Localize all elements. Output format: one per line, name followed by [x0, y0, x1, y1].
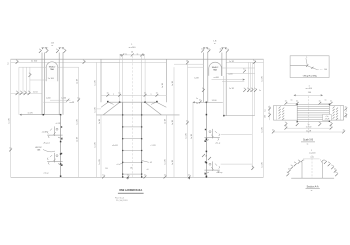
- dim tick with label: [24, 91, 27, 95]
- section 5-B centerline dashed: [308, 96, 310, 133]
- dim tick with label: [296, 122, 299, 126]
- line segment: [101, 102, 108, 107]
- dim drop left: [119, 55, 121, 59]
- line segment: [165, 115, 167, 177]
- line segment: [248, 62, 250, 92]
- svg-text:1x 1R: 1x 1R: [191, 133, 193, 139]
- line segment: [297, 110, 329, 112]
- dim drop right: [143, 55, 145, 59]
- node dot: [122, 174, 123, 175]
- rung 5: [123, 173, 142, 175]
- dim arrow: [42, 47, 43, 49]
- node dot: [60, 175, 62, 177]
- svg-text:1x 100: 1x 100: [48, 78, 55, 80]
- svg-text:1x 1R: 1x 1R: [99, 118, 101, 124]
- svg-text:sc=100: sc=100: [309, 152, 316, 154]
- svg-text:1x: 1x: [330, 101, 332, 103]
- line segment: [100, 115, 102, 177]
- svg-text:1x: 1x: [247, 88, 249, 90]
- dim tick with label: [77, 97, 80, 101]
- line segment: [301, 162, 303, 178]
- svg-text:1x 100: 1x 100: [31, 61, 38, 63]
- dim tick: [336, 108, 338, 110]
- line segment: [41, 53, 43, 115]
- line segment: [122, 102, 124, 177]
- dim tick with label: [342, 129, 345, 133]
- svg-text:1x: 1x: [83, 60, 85, 62]
- svg-text:1x: 1x: [202, 88, 204, 90]
- svg-text:x1: x1: [117, 164, 119, 166]
- line segment: [141, 55, 143, 102]
- dim arrow: [294, 95, 296, 96]
- dim line y67 right view: [188, 66, 204, 68]
- dim tick with label: [254, 88, 257, 92]
- section 5-B: boxed label: [323, 114, 332, 120]
- line segment: [272, 106, 274, 121]
- svg-text:1x: 1x: [156, 93, 158, 95]
- seal tab bubble: [209, 62, 222, 76]
- dim tick: [333, 112, 335, 114]
- dim tick with label: [294, 162, 297, 166]
- svg-text:1x: 1x: [144, 93, 146, 95]
- svg-text:1x: 1x: [296, 101, 298, 103]
- svg-text:1x 1R: 1x 1R: [95, 107, 97, 113]
- svg-text:1x=1R: 1x=1R: [306, 130, 312, 132]
- dim tick with label: [318, 101, 321, 105]
- svg-text:a=4R: a=4R: [69, 102, 74, 104]
- svg-text:SEAL2: SEAL2: [49, 65, 56, 68]
- dim tick with label: [208, 48, 211, 52]
- svg-text:1x: 1x: [24, 91, 26, 93]
- svg-text:x: x: [320, 159, 321, 161]
- svg-text:1x: 1x: [291, 100, 293, 102]
- dim tick: [279, 114, 281, 116]
- line segment: [286, 102, 297, 104]
- node dot: [206, 114, 208, 116]
- line segment: [60, 115, 62, 177]
- dim tick with label: [328, 162, 331, 166]
- dim arrow: [207, 47, 208, 49]
- svg-text:a=100: a=100: [214, 77, 219, 79]
- line segment: [165, 59, 167, 102]
- dim tick: [336, 110, 338, 112]
- rung 2: [123, 138, 142, 140]
- svg-text:(-1): (-1): [311, 157, 314, 159]
- dim tick with label: [16, 91, 19, 95]
- node dot: [141, 138, 142, 139]
- detail box: rail line: [290, 65, 307, 67]
- dim tick with label: [28, 91, 31, 95]
- line segment: [286, 127, 331, 129]
- dim tick: [279, 109, 281, 111]
- dim vertical x193: [192, 102, 194, 177]
- svg-text:1x 1R: 1x 1R: [77, 119, 79, 125]
- svg-text:1x: 1x: [291, 165, 293, 167]
- line segment: [207, 53, 209, 103]
- node dot: [122, 150, 123, 151]
- line segment: [252, 62, 254, 169]
- dim tick: [282, 110, 284, 112]
- node dot: [141, 176, 142, 177]
- svg-text:1x: 1x: [243, 88, 245, 90]
- svg-text:x: x: [303, 159, 304, 161]
- middle view: leader from corner dots: [109, 102, 114, 104]
- svg-text:1x: 1x: [77, 97, 79, 99]
- dim tick with label: [251, 88, 254, 92]
- node dot: [122, 126, 123, 127]
- dim tick with label: [243, 69, 246, 73]
- line segment: [29, 67, 31, 93]
- dim tick with label: [272, 129, 275, 133]
- baseline y177: [11, 176, 264, 178]
- dim tick with label: [144, 174, 147, 178]
- small ledge line left: [96, 108, 101, 110]
- svg-text:1x: 1x: [186, 120, 188, 122]
- seal tab bubble: [46, 62, 58, 81]
- node left post base: [43, 114, 45, 116]
- line segment: [343, 106, 345, 121]
- svg-text:1x: 1x: [243, 69, 245, 71]
- line segment: [320, 102, 331, 104]
- dim line y80: [30, 79, 46, 81]
- svg-text:1x: 1x: [298, 160, 300, 162]
- svg-text:1x 1R: 1x 1R: [172, 159, 174, 165]
- dim tick with label: [285, 101, 288, 105]
- tick on y62 right: [253, 60, 256, 64]
- dim tick with label: [344, 106, 347, 110]
- dim tick with label: [330, 126, 333, 130]
- dim tick: [140, 53, 143, 56]
- dim tick with label: [106, 93, 109, 97]
- line segment: [100, 59, 102, 102]
- dim tick with label: [20, 91, 23, 95]
- dim arrow: [120, 54, 122, 55]
- svg-text:ONE LADDER RAIL1: ONE LADDER RAIL1: [119, 188, 143, 192]
- node dot: [156, 101, 158, 103]
- svg-text:1x: 1x: [39, 49, 41, 51]
- dim line y102: [43, 101, 66, 103]
- dim tick with label: [331, 165, 334, 169]
- line segment: [11, 93, 42, 95]
- node dot: [60, 153, 62, 155]
- dim tick with label: [243, 88, 246, 92]
- dim vertical x174 between views: [173, 67, 175, 177]
- datum line top y59: [11, 58, 264, 60]
- node dot: [206, 102, 208, 104]
- line segment: [221, 53, 223, 77]
- node dot: [329, 104, 330, 105]
- line segment: [122, 55, 124, 102]
- svg-text:1x 1R: 1x 1R: [8, 118, 10, 124]
- svg-text:1x: 1x: [342, 129, 344, 131]
- svg-text:1x: 1x: [287, 172, 289, 174]
- svg-text:1x: 1x: [188, 174, 190, 176]
- dim tick: [279, 117, 281, 119]
- node dot: [206, 176, 208, 178]
- line segment: [108, 101, 157, 103]
- svg-text:1x: 1x: [319, 122, 321, 124]
- node dot: [206, 151, 208, 153]
- svg-text:1x 1R: 1x 1R: [77, 136, 79, 142]
- svg-text:1x: 1x: [324, 160, 326, 162]
- line segment: [321, 162, 323, 178]
- dim arrow: [193, 102, 195, 103]
- svg-text:a: a: [113, 94, 114, 96]
- dim tick: [279, 106, 281, 108]
- svg-text:1x: 1x: [294, 162, 296, 164]
- left view: bolt cluster upper: [47, 126, 62, 139]
- line segment: [42, 47, 49, 49]
- line segment: [222, 81, 244, 83]
- svg-text:sc: sc: [125, 53, 127, 55]
- dim arrow: [203, 47, 204, 49]
- svg-text:+1 1R: +1 1R: [150, 145, 156, 147]
- dim tick: [202, 154, 205, 157]
- svg-text:1x 1R: 1x 1R: [172, 80, 174, 86]
- line segment: [222, 67, 255, 69]
- line segment: [203, 47, 207, 49]
- node dot: [297, 104, 298, 105]
- svg-text:21 (Jul) 2019: 21 (Jul) 2019: [116, 200, 129, 202]
- dim tick with label: [296, 101, 299, 105]
- svg-text:1x: 1x: [335, 172, 337, 174]
- dim tick with label: [286, 172, 289, 176]
- line segment: [96, 62, 98, 177]
- svg-text:Section A-A: Section A-A: [307, 185, 319, 188]
- svg-text:+5x1=p: +5x1=p: [216, 172, 222, 174]
- svg-text:1x: 1x: [226, 48, 228, 50]
- line segment: [263, 59, 265, 177]
- small down arrows under baseline: [127, 177, 129, 179]
- svg-text:1x: 1x: [328, 162, 330, 164]
- node dot: [122, 162, 123, 163]
- svg-text:Offüg Rail Mfg: Offüg Rail Mfg: [303, 75, 318, 77]
- svg-text:1x: 1x: [199, 99, 201, 101]
- line segment: [78, 67, 80, 177]
- dim tick with label: [335, 172, 338, 176]
- dim tick: [121, 53, 124, 56]
- svg-text:1x: 1x: [16, 60, 18, 62]
- dim tick with label: [144, 93, 147, 97]
- left view: bolt cluster lower: [47, 153, 62, 166]
- svg-text:1x: 1x: [330, 126, 332, 128]
- node dot: [122, 138, 123, 139]
- svg-text:sc: sc: [137, 53, 139, 55]
- dim tick: [282, 108, 284, 110]
- svg-text:1x: 1x: [46, 49, 48, 51]
- dim tick with label: [247, 88, 250, 92]
- dim tick: [336, 113, 338, 115]
- node dot: [119, 101, 121, 103]
- dim line y100: [50, 99, 70, 101]
- tick on x29.9: [29, 73, 32, 77]
- dim tick with label: [226, 48, 229, 52]
- dim tick with label: [285, 126, 288, 130]
- dim tick with label: [127, 174, 130, 178]
- line segment: [59, 47, 63, 49]
- dim arrow: [59, 47, 60, 49]
- svg-text:1x 1R: 1x 1R: [172, 119, 174, 125]
- svg-text:1x 100: 1x 100: [306, 127, 311, 129]
- line segment: [301, 141, 315, 143]
- node dot: [329, 121, 330, 122]
- svg-text:1x: 1x: [29, 73, 31, 75]
- line segment: [297, 112, 329, 114]
- svg-text:TAB: TAB: [213, 69, 218, 72]
- line segment: [225, 53, 227, 116]
- svg-text:1x: 1x: [102, 174, 104, 176]
- line segment: [25, 67, 27, 93]
- svg-text:1x 1R: 1x 1R: [262, 76, 264, 82]
- dim tick: [333, 114, 335, 116]
- dim tick with label: [186, 120, 189, 124]
- line segment: [193, 101, 223, 103]
- line segment: [339, 106, 341, 121]
- node dot: [107, 101, 109, 103]
- line segment: [10, 59, 12, 177]
- dim tick: [301, 160, 303, 162]
- dim tick with label: [199, 99, 202, 103]
- node dot: [206, 176, 207, 177]
- detail box: frame: [290, 56, 329, 78]
- node dot: [141, 162, 142, 163]
- dim line y62 right span: [226, 61, 264, 63]
- svg-text:1x: 1x: [16, 91, 18, 93]
- svg-text:1x: 1x: [268, 113, 270, 115]
- svg-text:1x: 1x: [265, 109, 267, 111]
- svg-text:100: 100: [324, 69, 327, 71]
- line segment: [273, 119, 297, 121]
- line segment: [145, 102, 161, 115]
- dim tick with label: [268, 106, 271, 110]
- line segment: [103, 102, 119, 115]
- svg-text:1x 1R: 1x 1R: [162, 82, 164, 88]
- section 5-B top dim: [294, 94, 322, 96]
- ladder centerline dashed: [131, 56, 133, 177]
- line segment: [276, 106, 278, 121]
- svg-text:a: a: [151, 94, 152, 96]
- svg-text:1x: 1x: [196, 98, 198, 100]
- svg-text:1x: 1x: [319, 101, 321, 103]
- svg-text:1x: 1x: [208, 48, 210, 50]
- middle box flange line y62: [101, 61, 166, 63]
- svg-text:1x: 1x: [259, 90, 261, 92]
- line segment: [329, 105, 343, 107]
- line segment: [58, 53, 60, 115]
- line segment: [254, 62, 256, 115]
- line segment: [297, 103, 329, 105]
- node dot: [223, 115, 225, 117]
- tick on x10.6 low: [9, 147, 12, 151]
- node dot: [141, 114, 142, 115]
- line segment: [297, 114, 329, 116]
- tick x17 on y62: [16, 60, 19, 64]
- line segment: [223, 76, 225, 116]
- dim tick with label: [344, 113, 347, 117]
- svg-text:1x: 1x: [285, 126, 287, 128]
- svg-text:1x: 1x: [345, 106, 347, 108]
- dim tick with label: [290, 165, 293, 169]
- svg-text:1x: 1x: [118, 93, 120, 95]
- line segment: [250, 62, 252, 92]
- dim tick: [321, 160, 323, 162]
- dim tick with label: [330, 101, 333, 105]
- dim line y62 left span: [11, 61, 120, 63]
- svg-text:1x: 1x: [201, 48, 203, 50]
- dim tick: [282, 113, 284, 115]
- svg-text:1x: 1x: [127, 174, 129, 176]
- line segment: [20, 114, 61, 116]
- dim tick: [282, 118, 284, 120]
- line segment: [273, 131, 343, 133]
- svg-text:1x: 1x: [251, 88, 253, 90]
- svg-text:1x: 1x: [251, 166, 253, 168]
- dim tick with label: [251, 166, 254, 170]
- svg-text:1x: 1x: [296, 122, 298, 124]
- node dot: [144, 101, 146, 103]
- line segment: [297, 108, 329, 110]
- dim line y64 into right view: [174, 63, 203, 65]
- line segment: [62, 53, 64, 115]
- svg-text:1x: 1x: [9, 147, 11, 149]
- dim tick: [311, 67, 313, 69]
- dim vertical x187: [186, 60, 188, 177]
- right view: bolt cluster upper: [204, 129, 219, 142]
- svg-text:1x: 1x: [144, 174, 146, 176]
- svg-text:+R_p=1: +R_p=1: [43, 143, 50, 145]
- line segment: [273, 105, 297, 107]
- line segment: [144, 59, 146, 102]
- node dot: [206, 138, 208, 140]
- svg-text:sc=100: sc=100: [129, 47, 137, 49]
- datum y114.9 across middle view: [96, 114, 179, 116]
- svg-text:1x 1R: 1x 1R: [185, 133, 187, 139]
- tick near x187: [186, 60, 189, 64]
- svg-text:sc: sc: [311, 190, 313, 192]
- dim tick: [336, 115, 338, 117]
- dim tick with label: [102, 174, 105, 178]
- tick on post x203: [202, 88, 205, 92]
- line segment: [119, 59, 121, 102]
- dim tick with label: [324, 160, 327, 164]
- svg-text:sc: sc: [51, 45, 53, 47]
- line segment: [212, 79, 245, 81]
- svg-text:+5x_p: +5x_p: [215, 143, 220, 145]
- dim tick: [306, 65, 308, 67]
- line segment: [297, 120, 329, 122]
- svg-text:1=6R: 1=6R: [194, 77, 199, 79]
- svg-text:1x: 1x: [285, 101, 287, 103]
- dim tick with label: [285, 122, 288, 126]
- dim tick with label: [39, 49, 42, 53]
- line segment: [44, 53, 46, 115]
- svg-text:sc: sc: [307, 143, 309, 145]
- svg-text:1x: 1x: [64, 49, 66, 51]
- line segment: [202, 53, 204, 103]
- svg-text:1x: 1x: [285, 122, 287, 124]
- line segment: [226, 72, 255, 74]
- dim tick: [333, 109, 335, 111]
- line segment: [297, 118, 329, 120]
- dim arrow: [225, 47, 226, 49]
- line segment: [22, 67, 24, 93]
- svg-text:1x 1R: 1x 1R: [95, 80, 97, 86]
- dim tick with label: [46, 49, 49, 53]
- svg-text:x5=1R: x5=1R: [112, 145, 118, 147]
- dim tick: [333, 106, 335, 108]
- line segment: [221, 134, 252, 136]
- node dot: [60, 163, 62, 165]
